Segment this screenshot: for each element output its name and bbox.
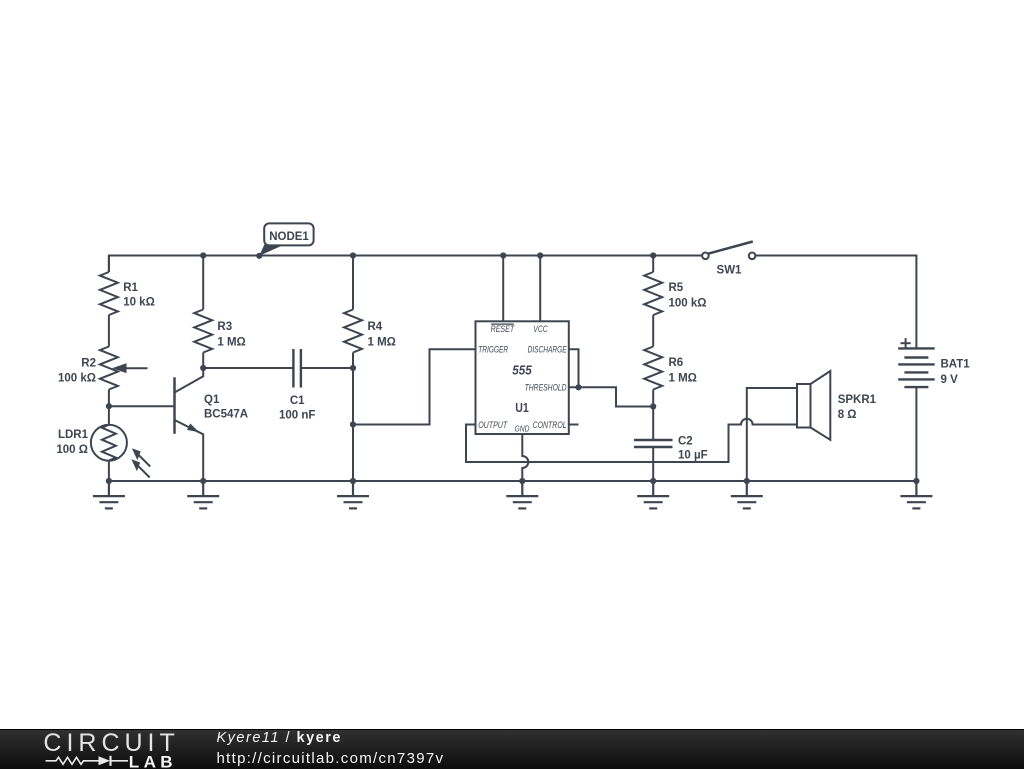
svg-text:NODE1: NODE1 xyxy=(269,231,309,243)
junction emitter at ground rail xyxy=(200,478,206,484)
wire R4 bottom through trigger node to ground xyxy=(352,353,354,482)
svg-text:U1: U1 xyxy=(515,400,529,415)
wire R3 bottom to node xyxy=(202,353,204,369)
junction NODE1 tap on VCC rail xyxy=(256,253,262,259)
svg-text:RESET: RESET xyxy=(491,324,515,335)
svg-text:1 MΩ: 1 MΩ xyxy=(217,336,245,348)
resistor R5 100k xyxy=(644,272,706,315)
junction R2/LDR1/base node xyxy=(106,403,112,409)
resistor R4 1M xyxy=(344,310,396,353)
capacitor C2 10uF xyxy=(634,436,708,462)
junction LDR1 at ground rail xyxy=(106,478,112,484)
svg-text:C1: C1 xyxy=(290,395,305,407)
junction R3/C1/collector node xyxy=(200,365,206,371)
wire top rail right segment to battery xyxy=(755,256,916,349)
wire battery negative to ground xyxy=(915,387,917,481)
wire trigger: node to 555 TRIGGER pin xyxy=(353,349,476,424)
svg-text:BAT1: BAT1 xyxy=(941,359,971,371)
wire C2 bottom plate to ground xyxy=(652,447,654,481)
junction battery at ground rail xyxy=(913,478,919,484)
wire ground rail xyxy=(109,480,917,482)
footer bar xyxy=(0,729,1024,769)
capacitor C1 100nF xyxy=(279,349,315,422)
svg-text:R5: R5 xyxy=(669,282,684,294)
wire R4 top lead xyxy=(352,256,354,310)
footer text xyxy=(217,729,445,769)
op-amp U1 555 timer IC box xyxy=(476,321,569,434)
plus sign xyxy=(901,342,911,344)
svg-text:VCC: VCC xyxy=(533,324,548,335)
wire speaker top terminal to ground rail xyxy=(747,388,797,481)
speaker SPKR1 8 ohm xyxy=(797,371,877,440)
svg-text:10 kΩ: 10 kΩ xyxy=(123,297,155,309)
svg-text:OUTPUT: OUTPUT xyxy=(478,420,508,431)
ground symbol at x=203.2 xyxy=(187,481,219,508)
svg-text:100 kΩ: 100 kΩ xyxy=(58,373,96,385)
svg-text:R1: R1 xyxy=(123,282,138,294)
photoresistor LDR1 100 ohm xyxy=(56,406,150,481)
wire VCC pin to top rail xyxy=(539,256,541,322)
wire OUTPUT pin routing to speaker with hop xyxy=(466,419,797,462)
junction R6/C2/threshold node xyxy=(650,403,656,409)
svg-text:Q1: Q1 xyxy=(204,394,220,406)
ground symbol at x=653.2 xyxy=(637,481,669,508)
svg-text:SW1: SW1 xyxy=(717,264,743,276)
svg-text:DISCHARGE: DISCHARGE xyxy=(528,344,567,355)
svg-text:TRIGGER: TRIGGER xyxy=(478,344,508,355)
svg-text:100 Ω: 100 Ω xyxy=(56,444,88,456)
wire 555 GND pin to ground with hop xyxy=(522,434,528,481)
wire DISCHARGE loop to THRESHOLD xyxy=(569,349,579,387)
wire top rail left segment (VCC net) xyxy=(109,256,702,273)
junction trigger node xyxy=(350,421,356,427)
junction U1 GND at ground rail xyxy=(519,478,525,484)
resistor R3 1M xyxy=(194,310,246,353)
wire between R5 and R6 xyxy=(652,315,654,347)
svg-text:LAB: LAB xyxy=(129,752,177,769)
ground symbol at x=522.3 xyxy=(506,481,538,508)
junction speaker at ground rail xyxy=(744,478,750,484)
svg-text:100 kΩ: 100 kΩ xyxy=(669,297,707,309)
ground symbol at x=108.9 xyxy=(93,481,125,508)
wire node to C1 left plate xyxy=(203,367,293,369)
svg-text:BC547A: BC547A xyxy=(204,409,248,421)
junction R4 top on VCC rail xyxy=(350,252,356,258)
svg-text:9 V: 9 V xyxy=(941,374,959,386)
junction discharge/threshold node xyxy=(575,384,581,390)
svg-text:SPKR1: SPKR1 xyxy=(838,394,877,406)
ground symbol at x=916.4 xyxy=(900,481,932,508)
wire base: R2/LDR junction to Q1 base xyxy=(109,405,175,407)
svg-text:1 MΩ: 1 MΩ xyxy=(368,336,396,348)
wire C1 right plate to R4 node xyxy=(301,367,353,369)
svg-text:555: 555 xyxy=(512,363,532,378)
battery BAT1 9V xyxy=(898,338,970,387)
ground symbol at x=746.8 xyxy=(731,481,763,508)
svg-text:CONTROL: CONTROL xyxy=(533,420,567,431)
junction R4 at ground rail xyxy=(350,478,356,484)
wire R5 column top lead xyxy=(652,256,654,273)
svg-text:C2: C2 xyxy=(678,436,693,448)
junction RESET pin on VCC rail xyxy=(500,252,506,258)
svg-text:R4: R4 xyxy=(368,321,383,333)
transistor Q1 BC547A NPN xyxy=(175,368,249,481)
wire node to C2 top plate xyxy=(652,407,654,441)
switch SW1 xyxy=(702,242,755,277)
wire RESET pin to top rail xyxy=(502,256,504,322)
wire R6 bottom to node xyxy=(652,390,654,407)
junction C2 at ground rail xyxy=(650,478,656,484)
CircuitLab logo xyxy=(0,730,200,769)
svg-text:LDR1: LDR1 xyxy=(58,429,89,441)
resistor R1 10k xyxy=(100,256,155,347)
svg-text:10 µF: 10 µF xyxy=(678,450,708,462)
svg-text:1 MΩ: 1 MΩ xyxy=(669,373,697,385)
ground symbol at x=353 xyxy=(337,481,369,508)
svg-text:8 Ω: 8 Ω xyxy=(838,409,857,421)
wire R3 column top xyxy=(202,256,204,310)
resistor R6 1M xyxy=(644,347,697,390)
junction R3 top on VCC rail xyxy=(200,252,206,258)
pin label RESET with overline xyxy=(491,323,514,325)
svg-text:GND: GND xyxy=(515,424,530,434)
node NODE1 flag callout xyxy=(259,223,313,255)
resistor R2 potentiometer 100k xyxy=(58,347,148,407)
wire THRESHOLD to R6 bottom node xyxy=(569,387,653,406)
svg-text:THRESHOLD: THRESHOLD xyxy=(525,382,567,393)
svg-text:R6: R6 xyxy=(669,357,684,369)
svg-text:R2: R2 xyxy=(81,358,96,370)
wire CONTROL stub xyxy=(569,424,579,426)
svg-text:R3: R3 xyxy=(217,321,232,333)
junction VCC pin on VCC rail xyxy=(537,252,543,258)
junction C1/R4 node xyxy=(350,365,356,371)
junction R5 top on VCC rail xyxy=(650,252,656,258)
svg-text:100 nF: 100 nF xyxy=(279,410,315,422)
